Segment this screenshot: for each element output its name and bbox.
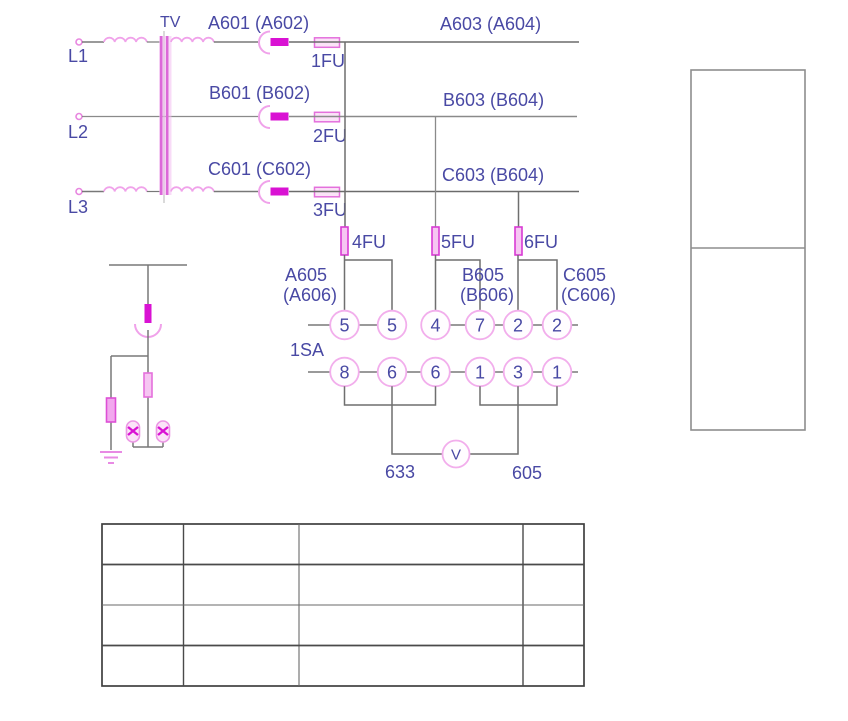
- terminal L2: [76, 114, 82, 120]
- transformer TV core bars: [161, 36, 167, 195]
- svg-text:6: 6: [430, 363, 440, 383]
- wire C down: [518, 192, 520, 228]
- wire B603: [289, 116, 577, 118]
- wire main down: [147, 356, 149, 447]
- svg-text:C605: C605: [563, 265, 606, 285]
- panel rectangle right: [691, 70, 805, 430]
- wire L2: [82, 116, 258, 118]
- transformer TV core centerline: [163, 31, 165, 203]
- table column line 1: [183, 524, 185, 686]
- wire bus A down: [344, 42, 346, 227]
- connector plug bar vertical: [145, 304, 152, 323]
- svg-text:5: 5: [339, 316, 349, 336]
- switch 1SA contact 3: [504, 358, 533, 387]
- wire bottom bracket left: [345, 386, 436, 405]
- wire 5FU bracket: [436, 255, 481, 311]
- connector plug bar C: [271, 188, 289, 196]
- connector socket arc A: [259, 32, 270, 54]
- svg-text:1SA: 1SA: [290, 340, 324, 360]
- left branch top bar: [109, 264, 187, 266]
- secondary winding C (TV): [171, 187, 214, 191]
- svg-text:(C606): (C606): [561, 285, 616, 305]
- fuse 6FU: [515, 227, 522, 255]
- svg-text:4FU: 4FU: [352, 232, 386, 252]
- voltmeter V: [443, 441, 470, 468]
- svg-text:L3: L3: [68, 197, 88, 217]
- wire 4FU bracket: [345, 255, 393, 311]
- connector plug bar A: [271, 38, 289, 46]
- secondary winding A (TV): [171, 38, 214, 42]
- primary winding C (TV): [104, 187, 147, 191]
- fuse main: [144, 373, 152, 397]
- svg-text:5: 5: [387, 316, 397, 336]
- fuse 4FU: [341, 227, 348, 255]
- svg-text:A601 (A602): A601 (A602): [208, 13, 309, 33]
- connector socket arc B: [259, 106, 270, 128]
- ground: [100, 452, 122, 463]
- table row line 2: [102, 604, 584, 606]
- wire to connector A: [214, 41, 258, 43]
- svg-text:C603 (B604): C603 (B604): [442, 165, 544, 185]
- svg-text:A605: A605: [285, 265, 327, 285]
- wire A603: [289, 41, 579, 43]
- table row line 3: [102, 645, 584, 647]
- wire lamps bottom: [133, 442, 163, 447]
- wire down from bar: [147, 265, 149, 304]
- fuse 5FU: [432, 227, 439, 255]
- svg-text:605: 605: [512, 463, 542, 483]
- fuse 2FU: [315, 112, 340, 122]
- wire T branch left: [111, 356, 148, 450]
- svg-text:B601 (B602): B601 (B602): [209, 83, 310, 103]
- svg-text:2FU: 2FU: [313, 126, 347, 146]
- svg-text:1: 1: [475, 363, 485, 383]
- svg-text:TV: TV: [160, 14, 181, 31]
- switch 1SA contact 1b: [543, 358, 572, 387]
- switch 1SA contact 6a: [378, 358, 407, 387]
- transformer TV core band: [159, 36, 172, 195]
- lamp HL2: [157, 421, 170, 442]
- table column line 2: [298, 524, 300, 686]
- svg-text:(A606): (A606): [283, 285, 337, 305]
- svg-text:C601 (C602): C601 (C602): [208, 159, 311, 179]
- panel divider: [691, 247, 805, 249]
- svg-text:5FU: 5FU: [441, 232, 475, 252]
- switch 1SA contact 5a: [330, 311, 359, 340]
- svg-text:A603 (A604): A603 (A604): [440, 14, 541, 34]
- lamp HL1: [127, 421, 140, 442]
- wire 6FU bracket: [518, 255, 557, 311]
- fuse 3FU: [315, 187, 340, 197]
- wire top row leads: [308, 324, 578, 326]
- switch 1SA contact 2a: [504, 311, 533, 340]
- svg-text:3FU: 3FU: [313, 200, 347, 220]
- svg-text:L1: L1: [68, 46, 88, 66]
- wire to connector C: [214, 191, 258, 193]
- fuse 1FU: [315, 38, 340, 48]
- switch 1SA contact 7: [466, 311, 495, 340]
- svg-text:(B606): (B606): [460, 285, 514, 305]
- connector socket arc C: [259, 181, 270, 203]
- wire winding to core (A): [147, 41, 160, 43]
- wire L3 to primary winding: [82, 191, 104, 193]
- svg-text:1: 1: [552, 363, 562, 383]
- svg-text:633: 633: [385, 462, 415, 482]
- fuse left (ground leg): [107, 398, 116, 422]
- switch 1SA contact 1a: [466, 358, 495, 387]
- table row line 1: [102, 564, 584, 566]
- svg-text:7: 7: [475, 316, 485, 336]
- connector socket arc vertical: [135, 324, 161, 337]
- svg-text:6FU: 6FU: [524, 232, 558, 252]
- wire C603: [289, 191, 579, 193]
- wire 605 to voltmeter: [470, 386, 519, 454]
- table column line 3: [522, 524, 524, 686]
- svg-text:B603 (B604): B603 (B604): [443, 90, 544, 110]
- svg-text:V: V: [451, 447, 461, 464]
- switch 1SA contact 6b: [421, 358, 450, 387]
- wire bottom row leads: [308, 371, 578, 373]
- svg-text:2: 2: [552, 316, 562, 336]
- table outer border: [102, 524, 584, 686]
- svg-text:B605: B605: [462, 265, 504, 285]
- terminal L3: [76, 189, 82, 195]
- switch 1SA contact 2b: [543, 311, 572, 340]
- terminal L1: [76, 39, 82, 45]
- svg-text:L2: L2: [68, 122, 88, 142]
- switch 1SA contact 5b: [378, 311, 407, 340]
- wire bottom bracket right: [480, 386, 557, 405]
- svg-text:1FU: 1FU: [311, 51, 345, 71]
- wire below connector: [147, 330, 149, 356]
- switch 1SA contact 8: [330, 358, 359, 387]
- wire 633 to voltmeter: [392, 386, 443, 454]
- connector plug bar B: [271, 113, 289, 121]
- svg-text:3: 3: [513, 363, 523, 383]
- svg-text:4: 4: [430, 316, 440, 336]
- svg-text:2: 2: [513, 316, 523, 336]
- wire winding to core (C): [147, 191, 160, 193]
- primary winding A (TV): [104, 38, 147, 42]
- svg-text:8: 8: [339, 363, 349, 383]
- switch 1SA contact 4: [421, 311, 450, 340]
- svg-text:6: 6: [387, 363, 397, 383]
- wire B down: [435, 117, 437, 228]
- wire L1 to primary winding: [82, 41, 104, 43]
